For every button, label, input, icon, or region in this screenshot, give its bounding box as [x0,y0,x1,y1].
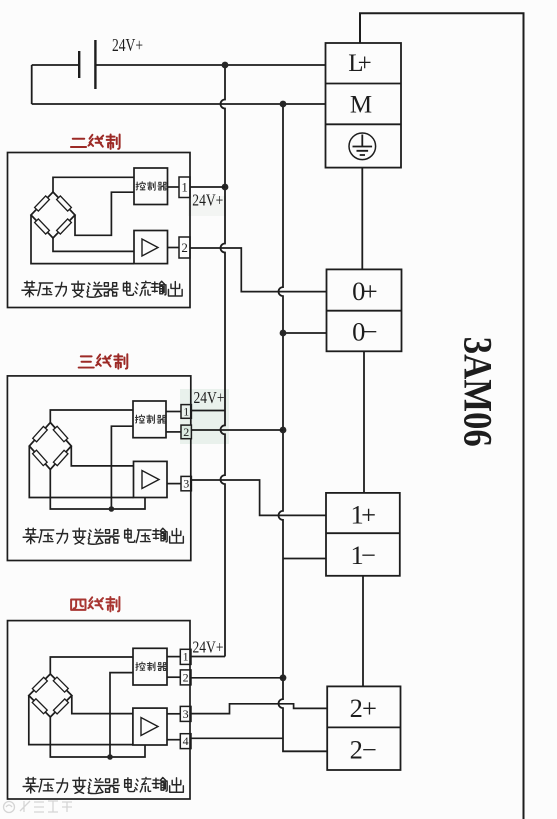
terminal 1 box [179,177,190,198]
terminal digits block3 [183,650,189,748]
svg-text:1: 1 [183,650,189,664]
svg-text:0−: 0− [352,317,378,347]
module analog box 2 [327,686,400,770]
wire: 0 box to 1 box [363,351,365,493]
wire: M return wire (lower horizontal) [32,103,326,105]
wire: controller to terminal 2 [167,676,180,678]
wire: rail B to 0- terminal [283,332,327,334]
wire: amplifier to terminal 2 [168,247,180,249]
wire: terminal 2 to common rail B [191,677,283,679]
node: junction dot top wire / rail A [222,62,229,69]
terminal 3 box [180,706,191,721]
module terminal strip: L+ / M / PE box [326,43,402,168]
wire: M common rail (line B) with hops [279,104,328,751]
PE ground symbol [349,133,376,160]
block1 outer box [8,153,191,308]
wire: 1 box to 2 box [362,576,364,687]
terminal 2 box [180,670,191,685]
node: block3 common rail dot [107,754,113,760]
svg-text:2+: 2+ [350,693,377,723]
node: block2 common rail dot [109,506,115,512]
wire: terminal 2 to common rail B [191,429,283,431]
wire: terminal 3 to module 2+ [191,704,327,714]
wire: controller to terminal 2 [166,431,181,433]
scanner tint smudge near block2 terminals [180,389,229,444]
amplifier triangle [141,718,158,736]
title: 四线制 (four-wire) red [71,597,119,611]
svg-text:0+: 0+ [352,276,378,306]
wire: controller to terminal 1 [168,186,180,188]
wire: module top loop L+ to right rail [360,13,524,819]
wire: terminal 4 to common rail B [191,737,283,739]
svg-text:1+: 1+ [351,500,377,530]
label: 控制器 in block2 controller [135,415,166,424]
wire: 24V+ rail (line A) with hops [221,65,226,657]
svg-text:M: M [350,91,372,118]
label: 某压力变送器电流输出 (block3 caption) [23,778,183,794]
amplifier triangle [142,471,159,489]
module terminal labels [348,50,377,764]
label: 控制器 in block3 controller [136,662,167,671]
terminal digits block2 [183,404,189,490]
amplifier box U2 [134,231,168,264]
amplifier box U6 [133,708,167,745]
svg-text:2−: 2− [350,734,377,764]
wire: bridge left to amplifier bottom [29,446,133,498]
bridge sensor B3 [29,674,72,717]
node: junction dot rail B / block2 terminal2 [280,427,287,434]
node: junction dot rail B / 0- wire [280,330,287,337]
title: 三线制 (three-wire) red [79,354,128,368]
svg-text:24V+: 24V+ [193,638,224,657]
wire: terminal 3 to module 1+ [191,480,326,515]
controller box U5 [133,648,167,685]
svg-text:2: 2 [181,240,188,255]
wire: bridge top to controller [50,657,133,674]
wire: amplifier to terminal 3 [167,713,180,715]
wire: terminal 1 to 24V rail A end [191,656,225,658]
node: junction dot M wire / rail B [280,101,287,108]
svg-text:1: 1 [181,180,188,195]
wire: controller lower input to common rail [110,673,133,757]
svg-text:1−: 1− [351,540,377,570]
wire: amplifier to terminal 3 [167,483,181,485]
block2 outer box [7,376,190,561]
wire: controller to terminal 1 [166,411,181,413]
wire: bridge top to controller [50,410,133,423]
wire: rail B to 1- terminal [283,558,326,560]
battery BT1 24V [79,40,95,89]
amplifier triangle [142,239,158,256]
wire: bridge top to controller [53,177,134,192]
controller box U3 [133,401,166,438]
title: 二线制 (two-wire) red [71,134,120,148]
terminal 2 box [179,237,190,258]
node: junction dot rail B / block3 terminal2 [280,674,287,681]
wire: bridge bottom to block2 common rail [50,470,145,510]
bridge sensor B2 [29,423,71,470]
wire: battery left side vertical [31,65,33,104]
controller box U1 [134,168,168,205]
svg-text:2: 2 [183,425,189,439]
module analog box 0 [327,269,402,351]
terminal 3 box [181,476,191,490]
terminal 2 box [181,425,191,439]
wire: controller lower input to common rail [111,426,133,509]
watermark (faint) bottom-left [4,801,73,813]
wire: amplifier to terminal 4 [167,739,180,741]
node: junction dot rail A / block1 terminal1 [222,184,229,191]
terminal 1 box [181,405,191,419]
wire: terminal 2 to module 0+ [190,248,327,292]
wire: bridge right to amplifier [72,696,133,714]
wire: bridge right to amplifier [71,446,133,466]
svg-text:3: 3 [183,477,189,491]
svg-text:4: 4 [183,734,189,748]
module analog box 1 [326,493,400,576]
label: 某压力变送器电流输出 (block1 caption) [22,281,182,297]
terminal digits block1 [181,180,188,256]
label: 某压力变送器电压输出 (block2 caption) [23,528,183,544]
wire: bridge bottom to block3 common rail [50,717,145,757]
wire: bridge right to controller lower input [75,192,134,235]
svg-text:1: 1 [183,404,189,418]
wire: PE terminal down to 0+ box [361,168,363,270]
wire: bridge bottom to amplifier [53,238,134,251]
wire: bridge left to amplifier bottom [31,215,134,264]
terminal 1 box [180,649,191,664]
svg-text:24V+: 24V+ [192,191,223,210]
wire: 24V+ top supply from battery to L+ [32,64,326,66]
bridge sensor B1 (strain gauge diamond) [31,192,75,238]
label: 控制器 in block1 controller [136,182,167,191]
svg-text:2: 2 [183,670,189,684]
block3 outer box [8,621,191,799]
svg-text:L+: L+ [348,50,372,77]
svg-text:3AM06: 3AM06 [456,337,501,447]
wire: terminal 1 to 24V rail A [191,410,225,412]
svg-text:24V+: 24V+ [112,35,143,55]
amplifier box U4 [134,461,168,497]
wire: terminal 1 to 24V rail A [190,186,225,188]
terminal 4 box [180,734,191,749]
wire: bridge left to amplifier bottom [29,696,133,745]
wire: controller to terminal 1 [167,656,180,658]
svg-text:24V+: 24V+ [194,388,225,407]
svg-text:3: 3 [183,707,189,721]
